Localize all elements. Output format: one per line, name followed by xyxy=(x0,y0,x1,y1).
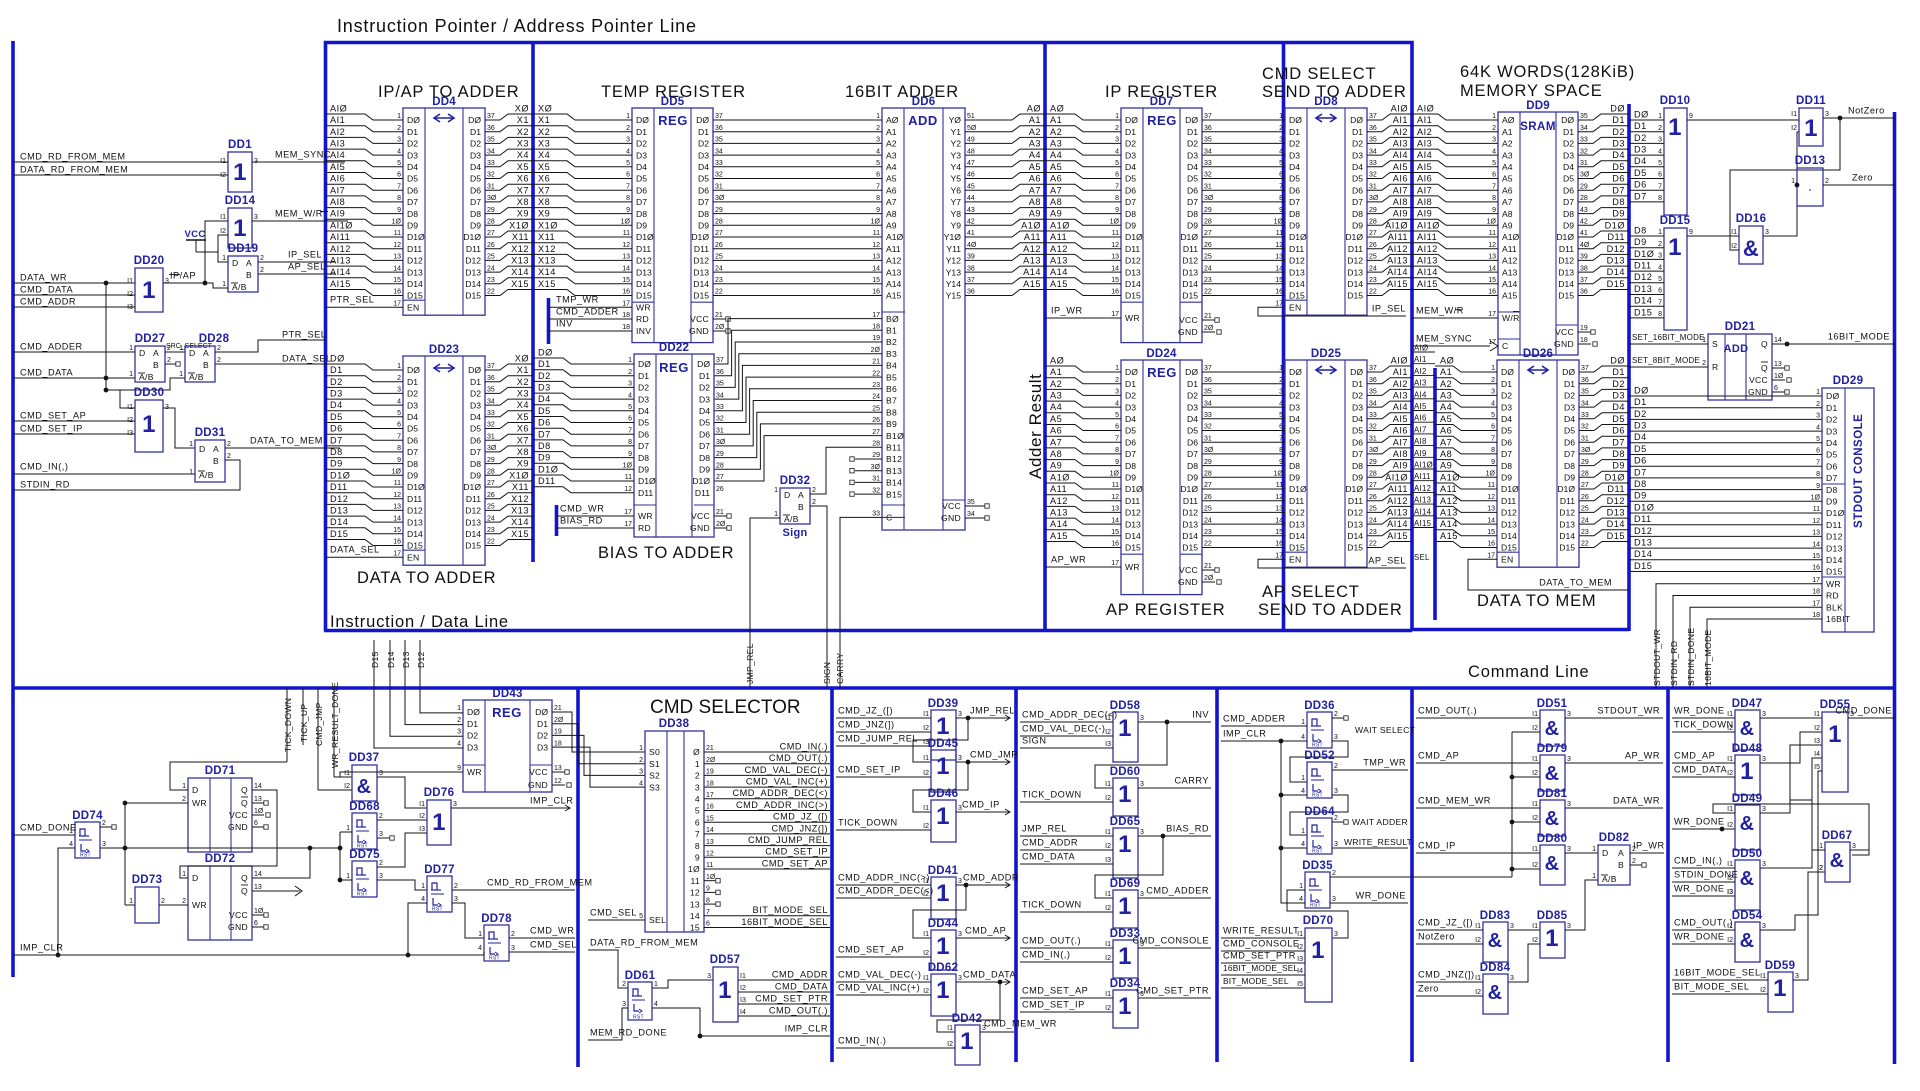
svg-text:8: 8 xyxy=(695,841,700,851)
svg-text:D6: D6 xyxy=(1289,437,1300,447)
svg-text:WR_DONE: WR_DONE xyxy=(1356,890,1406,900)
svg-text:24: 24 xyxy=(715,265,723,272)
svg-text:D14: D14 xyxy=(1347,531,1363,541)
svg-text:AI9: AI9 xyxy=(330,209,345,219)
svg-text:I2: I2 xyxy=(344,783,350,790)
and-gate DD80 xyxy=(1540,845,1565,885)
wire: AP-to-mem feeder bus xyxy=(1433,368,1437,620)
svg-text:WAIT ADDER: WAIT ADDER xyxy=(1352,817,1408,827)
svg-text:A15: A15 xyxy=(1050,279,1068,289)
svg-text:2: 2 xyxy=(1658,125,1662,132)
svg-text:A1Ø: A1Ø xyxy=(1021,220,1041,230)
svg-text:14: 14 xyxy=(690,911,700,921)
svg-text:2Ø: 2Ø xyxy=(1204,575,1214,582)
wire DD26 D8 to memory bus xyxy=(1579,460,1629,466)
svg-text:2: 2 xyxy=(379,813,383,820)
wire DD6 Y1 to adder-result bus A1 xyxy=(965,126,1045,132)
svg-text:VCC: VCC xyxy=(529,767,548,777)
wire D3 into DD10 xyxy=(1629,154,1664,156)
svg-text:11: 11 xyxy=(1112,482,1119,489)
wire AI6 into DD9 xyxy=(1412,184,1498,190)
svg-text:DD35: DD35 xyxy=(1302,860,1333,872)
svg-text:DD44: DD44 xyxy=(928,918,959,930)
svg-text:I2: I2 xyxy=(1817,865,1823,872)
svg-text:D6: D6 xyxy=(470,185,481,195)
svg-text:AI8: AI8 xyxy=(1393,197,1408,207)
svg-text:CMD_SET_AP: CMD_SET_AP xyxy=(1022,985,1088,995)
svg-text:AI2: AI2 xyxy=(1393,127,1408,137)
wire WR_RESULT_DONE into DD37 xyxy=(334,776,352,778)
svg-text:DØ: DØ xyxy=(1125,367,1138,377)
svg-text:EN: EN xyxy=(1501,554,1514,564)
svg-text:16: 16 xyxy=(1111,289,1119,296)
svg-text:PTR_SEL: PTR_SEL xyxy=(282,329,326,339)
svg-text:5: 5 xyxy=(1115,160,1119,167)
svg-text:DATA_RD_FROM_MEM: DATA_RD_FROM_MEM xyxy=(590,937,698,947)
svg-text:VCC: VCC xyxy=(1179,565,1198,575)
svg-text:DØ: DØ xyxy=(467,707,480,717)
svg-text:B8: B8 xyxy=(886,407,897,417)
svg-text:D6: D6 xyxy=(1289,185,1300,195)
svg-text:DD13: DD13 xyxy=(1795,155,1826,167)
wire TMP_WR to DD5 xyxy=(548,306,632,308)
svg-text:A6: A6 xyxy=(1502,185,1513,195)
wire AI15 into DD9 xyxy=(1412,290,1498,296)
svg-text:1: 1 xyxy=(1311,937,1325,964)
svg-text:D11: D11 xyxy=(1183,244,1198,254)
svg-text:I1: I1 xyxy=(923,711,929,718)
svg-text:1: 1 xyxy=(1658,113,1662,120)
svg-text:1: 1 xyxy=(233,215,247,242)
wire DD67 out loop to DD49 xyxy=(1850,850,1869,855)
svg-text:D7: D7 xyxy=(538,429,551,439)
svg-text:X11: X11 xyxy=(538,232,555,242)
svg-text:3: 3 xyxy=(1510,923,1514,930)
wire DD70 out to DD35 pin1 xyxy=(1287,890,1348,938)
svg-text:D6: D6 xyxy=(636,185,647,195)
wire AI7 into DD9 xyxy=(1412,196,1498,202)
wire CMD_JNZ to DD84 xyxy=(1416,981,1483,983)
svg-text:12: 12 xyxy=(706,851,714,858)
svg-text:12: 12 xyxy=(554,778,562,785)
svg-text:I2: I2 xyxy=(923,950,929,957)
svg-text:X9: X9 xyxy=(517,459,529,469)
svg-text:D4: D4 xyxy=(1563,162,1574,172)
svg-text:6: 6 xyxy=(1658,288,1662,295)
svg-text:14: 14 xyxy=(254,783,262,790)
svg-text:D9: D9 xyxy=(1564,473,1575,483)
svg-text:I2: I2 xyxy=(1105,843,1111,850)
IC DD15 zero-detect high byte xyxy=(1664,228,1687,330)
svg-text:I3: I3 xyxy=(1727,889,1733,896)
wire CMD_OUT from DD57 xyxy=(738,1015,830,1017)
wire DD24 to DD25 bit 4 xyxy=(1202,418,1285,420)
svg-text:I2: I2 xyxy=(1727,822,1733,829)
svg-text:27: 27 xyxy=(1204,230,1212,237)
svg-text:I1: I1 xyxy=(1532,801,1538,808)
svg-text:D14: D14 xyxy=(1125,531,1141,541)
svg-text:3: 3 xyxy=(1492,137,1496,144)
wire D10 into DD23 xyxy=(325,481,403,487)
svg-text:2Ø: 2Ø xyxy=(554,717,564,724)
svg-text:TMP_WR: TMP_WR xyxy=(556,294,599,304)
svg-text:22: 22 xyxy=(1581,541,1589,548)
svg-text:26: 26 xyxy=(487,492,495,499)
svg-text:STDIN_DONE: STDIN_DONE xyxy=(1686,628,1696,686)
svg-text:CMD_IP: CMD_IP xyxy=(1418,840,1456,850)
svg-text:IMP_CLR: IMP_CLR xyxy=(530,795,573,805)
wire X8 into DD5 xyxy=(533,208,632,214)
svg-text:VCC: VCC xyxy=(1555,327,1574,337)
svg-text:A1Ø: A1Ø xyxy=(1502,232,1520,242)
wire JMP_REL to DD65 xyxy=(1020,835,1113,837)
svg-text:I1: I1 xyxy=(1105,891,1111,898)
svg-text:AI1: AI1 xyxy=(330,115,345,125)
svg-text:D12: D12 xyxy=(1125,256,1141,266)
svg-text:D14: D14 xyxy=(1559,531,1575,541)
svg-text:DD64: DD64 xyxy=(1304,806,1335,818)
wire CMD_JZ to DD83 xyxy=(1416,929,1483,931)
wire MEM_W/R from DD14 xyxy=(252,220,348,222)
svg-text:1: 1 xyxy=(179,345,183,352)
svg-text:AI14: AI14 xyxy=(1417,267,1438,277)
svg-text:A9: A9 xyxy=(1440,461,1452,471)
svg-text:D11: D11 xyxy=(1289,496,1304,506)
wire X14 out of DD23 xyxy=(485,528,533,534)
svg-text:3: 3 xyxy=(1491,389,1495,396)
svg-text:I2: I2 xyxy=(1105,905,1111,912)
wire CMD_ADDR_DEC(<) from DD38 xyxy=(704,798,830,800)
svg-text:4: 4 xyxy=(1301,841,1305,848)
svg-text:5: 5 xyxy=(1816,436,1820,443)
svg-text:D2: D2 xyxy=(1563,139,1574,149)
svg-text:DD69: DD69 xyxy=(1110,878,1141,890)
wire X10 out of DD23 xyxy=(485,481,533,487)
svg-text:27: 27 xyxy=(1369,482,1377,489)
svg-text:D4: D4 xyxy=(1187,162,1198,172)
wire AI5 into DD4 xyxy=(325,173,403,179)
svg-text:A1: A1 xyxy=(1440,367,1452,377)
svg-text:9: 9 xyxy=(695,853,700,863)
no-connect DD82 B out xyxy=(1630,864,1642,866)
svg-text:35: 35 xyxy=(1581,389,1589,396)
svg-text:AI12: AI12 xyxy=(330,244,351,254)
svg-text:2: 2 xyxy=(876,125,880,132)
svg-text:33: 33 xyxy=(716,404,724,411)
svg-text:Y14: Y14 xyxy=(946,279,962,289)
wire DD24 to DD25 bit 10 xyxy=(1202,488,1285,490)
svg-text:3: 3 xyxy=(1567,756,1571,763)
svg-text:D11: D11 xyxy=(1348,244,1363,254)
svg-text:17: 17 xyxy=(624,509,632,516)
svg-text:D13: D13 xyxy=(330,506,348,516)
svg-text:D4: D4 xyxy=(1612,402,1625,412)
svg-text:34: 34 xyxy=(1580,125,1588,132)
svg-text:AØ: AØ xyxy=(1050,103,1064,113)
svg-text:1: 1 xyxy=(142,277,156,304)
wire 16BIT_MODE_SEL to DD59 xyxy=(1672,979,1768,981)
svg-text:3Ø: 3Ø xyxy=(716,439,726,446)
svg-text:32: 32 xyxy=(1369,424,1377,431)
wire DD75 out to DD76 I3 xyxy=(377,833,427,867)
svg-text:I2: I2 xyxy=(923,770,929,777)
svg-text:37: 37 xyxy=(715,113,723,120)
svg-text:DD24: DD24 xyxy=(1146,348,1177,360)
svg-text:7: 7 xyxy=(626,183,630,190)
svg-text:R: R xyxy=(1712,362,1719,372)
wire D0 into DD22 xyxy=(533,358,634,364)
svg-text:D7: D7 xyxy=(1563,197,1574,207)
svg-text:NotZero: NotZero xyxy=(1418,931,1455,941)
svg-text:DD16: DD16 xyxy=(1736,213,1767,225)
svg-text:44: 44 xyxy=(967,195,975,202)
svg-text:RD: RD xyxy=(636,314,649,324)
wire D7 into DD23 xyxy=(325,446,403,452)
IC DD73 delay xyxy=(135,887,159,923)
wire CMD_ADDR_INC to DD41 xyxy=(836,884,931,886)
wire DD26 D12 to memory bus xyxy=(1579,506,1629,512)
svg-text:D6: D6 xyxy=(1187,437,1198,447)
wire DD5 D6 to DD6 A6 xyxy=(713,189,882,191)
svg-text:26: 26 xyxy=(1204,494,1212,501)
svg-text:D11: D11 xyxy=(695,488,710,498)
svg-text:I5: I5 xyxy=(1297,981,1303,988)
svg-text:1: 1 xyxy=(1118,893,1132,920)
wire DD61 pin4 to IMP_CLR wire xyxy=(652,1008,700,1036)
wire: mini bus for DD5 control nets xyxy=(547,298,551,344)
svg-text:2: 2 xyxy=(628,369,632,376)
svg-text:A: A xyxy=(1618,848,1624,858)
svg-text:D11: D11 xyxy=(330,482,348,492)
svg-text:D12: D12 xyxy=(1182,256,1198,266)
wire AI1 out of DD8 xyxy=(1367,126,1412,132)
svg-text:REG: REG xyxy=(659,360,689,375)
svg-text:CMD_SET_AP: CMD_SET_AP xyxy=(20,410,86,420)
svg-text:A6: A6 xyxy=(1050,426,1062,436)
svg-text:AI1Ø: AI1Ø xyxy=(1385,220,1408,230)
svg-text:7: 7 xyxy=(1658,183,1662,190)
svg-text:12: 12 xyxy=(622,242,630,249)
svg-text:CMD_SET_IP: CMD_SET_IP xyxy=(838,764,901,774)
wire CMD_VAL_DEC to DD58 xyxy=(1020,735,1113,737)
svg-text:24: 24 xyxy=(1369,265,1377,272)
wire DD48 out to DD55 I2 xyxy=(1760,732,1822,763)
svg-text:47: 47 xyxy=(967,160,975,167)
svg-text:2: 2 xyxy=(1334,763,1338,770)
svg-text:DD49: DD49 xyxy=(1732,793,1763,805)
svg-text:1: 1 xyxy=(1773,975,1787,1002)
svg-text:VCC: VCC xyxy=(691,511,710,521)
mux DD31 xyxy=(195,440,225,482)
svg-text:1: 1 xyxy=(1791,178,1795,185)
svg-text:14: 14 xyxy=(1774,337,1782,344)
svg-text:23: 23 xyxy=(1204,277,1212,284)
svg-text:13: 13 xyxy=(254,796,262,803)
svg-text:11: 11 xyxy=(1489,230,1496,237)
wire A3 into DD7 xyxy=(1045,149,1121,155)
svg-text:D12: D12 xyxy=(1182,508,1198,518)
svg-text:3: 3 xyxy=(1140,829,1144,836)
svg-text:4: 4 xyxy=(69,841,73,848)
svg-text:2: 2 xyxy=(695,771,700,781)
svg-text:D13: D13 xyxy=(693,267,709,277)
svg-text:CMD_ADDER: CMD_ADDER xyxy=(556,306,619,316)
svg-text:D6: D6 xyxy=(1125,437,1136,447)
svg-text:DD42: DD42 xyxy=(952,1013,983,1025)
wire X7 out of DD4 xyxy=(485,196,533,202)
svg-text:D6: D6 xyxy=(1634,456,1647,466)
svg-text:I2: I2 xyxy=(1475,989,1481,996)
svg-text:&: & xyxy=(1743,236,1759,261)
svg-text:D1Ø: D1Ø xyxy=(407,482,425,492)
svg-text:D7: D7 xyxy=(407,197,418,207)
svg-text:D8: D8 xyxy=(699,453,710,463)
svg-text:D14: D14 xyxy=(386,651,396,668)
wire CMD_VAL_INC(+) from DD38 xyxy=(704,786,830,788)
svg-text:3: 3 xyxy=(1567,711,1571,718)
svg-text:DD7: DD7 xyxy=(1150,96,1174,108)
svg-text:13: 13 xyxy=(706,839,714,846)
svg-text:31: 31 xyxy=(487,183,495,190)
svg-text:1: 1 xyxy=(222,281,226,288)
svg-text:D1Ø: D1Ø xyxy=(1345,232,1363,242)
svg-text:6: 6 xyxy=(628,416,632,423)
wire DD52 out to DD64 xyxy=(1290,795,1348,835)
wire DD24 to DD25 bit 13 xyxy=(1202,523,1285,525)
svg-text:CMD_VAL_DEC(-): CMD_VAL_DEC(-) xyxy=(1022,723,1105,733)
svg-text:CMD_DATA: CMD_DATA xyxy=(1022,851,1076,861)
svg-text:DD9: DD9 xyxy=(1526,100,1550,112)
wire D8 into DD22 xyxy=(533,452,634,458)
svg-text:AIØ: AIØ xyxy=(1417,103,1434,113)
svg-text:1: 1 xyxy=(346,825,350,832)
svg-text:4: 4 xyxy=(1279,400,1283,407)
buffer DD62 xyxy=(931,974,956,1016)
wire DD9 D0 to memory bus xyxy=(1578,114,1629,120)
svg-text:CMD_OUT(.): CMD_OUT(.) xyxy=(1674,917,1733,927)
svg-text:14: 14 xyxy=(706,827,714,834)
svg-text:RST: RST xyxy=(1312,793,1323,799)
svg-text:A14: A14 xyxy=(1502,279,1518,289)
svg-text:B9: B9 xyxy=(886,419,897,429)
svg-text:CMD_SET_AP: CMD_SET_AP xyxy=(762,858,828,868)
buffer DD33 xyxy=(1113,940,1138,978)
svg-text:43: 43 xyxy=(967,207,975,214)
svg-text:TICK_DOWN: TICK_DOWN xyxy=(1674,719,1734,729)
svg-text:D11: D11 xyxy=(1501,496,1516,506)
svg-text:36: 36 xyxy=(715,125,723,132)
wire WR_DONE to DD54 xyxy=(1672,943,1735,945)
svg-text:D5: D5 xyxy=(1352,174,1363,184)
svg-text:DD39: DD39 xyxy=(928,698,959,710)
svg-text:28: 28 xyxy=(1581,471,1589,478)
IC DD9 SRAM 64K words xyxy=(1498,112,1578,355)
wire D6 into DD22 xyxy=(533,428,634,434)
svg-text:35: 35 xyxy=(715,137,723,144)
svg-text:DD25: DD25 xyxy=(1311,348,1342,360)
svg-text:37: 37 xyxy=(967,277,975,284)
svg-text:D8: D8 xyxy=(1289,209,1300,219)
svg-text:2: 2 xyxy=(622,981,626,988)
wire X4 into DD5 xyxy=(533,161,632,167)
wire AI7 into DD4 xyxy=(325,196,403,202)
svg-text:17: 17 xyxy=(1275,300,1283,307)
svg-text:9: 9 xyxy=(628,451,632,458)
svg-text:19: 19 xyxy=(1580,325,1588,332)
svg-text:MEMORY SPACE: MEMORY SPACE xyxy=(1460,82,1603,100)
svg-text:D2: D2 xyxy=(1125,391,1136,401)
wire AI11 out of DD25 xyxy=(1367,495,1412,501)
wire AI3 into DD4 xyxy=(325,149,403,155)
svg-text:7: 7 xyxy=(1491,435,1495,442)
mux DD32 sign extender xyxy=(780,488,810,524)
buffer DD55 command done xyxy=(1822,712,1848,792)
svg-text:34: 34 xyxy=(1369,400,1377,407)
wire DD26 D13 to memory bus xyxy=(1579,518,1629,524)
wire: bottom box divider x=1217 xyxy=(1215,688,1219,1062)
svg-text:27: 27 xyxy=(487,230,495,237)
svg-text:D15: D15 xyxy=(636,291,652,301)
svg-text:WR: WR xyxy=(192,798,207,808)
wire SET_8BIT_MODE to DD21 xyxy=(1629,366,1708,368)
svg-text:D5: D5 xyxy=(1634,168,1647,178)
svg-text:Y15: Y15 xyxy=(946,291,962,301)
svg-text:11: 11 xyxy=(1276,482,1283,489)
svg-text:32: 32 xyxy=(1204,172,1212,179)
wire A2 into DD26 xyxy=(1435,389,1497,395)
wire DD54 out to DD55 I5 xyxy=(1760,771,1822,930)
svg-text:D7: D7 xyxy=(636,197,647,207)
svg-text:D1Ø: D1Ø xyxy=(538,464,558,474)
svg-text:8: 8 xyxy=(1115,195,1119,202)
svg-text:6: 6 xyxy=(626,172,630,179)
wire DD16 out up to DD11/DD13 xyxy=(1763,132,1799,236)
svg-text:RST: RST xyxy=(489,956,500,962)
wire X5 out of DD23 xyxy=(485,423,533,429)
svg-text:13: 13 xyxy=(393,254,401,261)
svg-text:D: D xyxy=(139,348,146,358)
svg-text:DD46: DD46 xyxy=(928,788,959,800)
svg-text:2: 2 xyxy=(812,487,816,494)
svg-text:D9: D9 xyxy=(698,221,709,231)
svg-text:2: 2 xyxy=(454,883,458,890)
wire X12 out of DD4 xyxy=(485,254,533,260)
svg-text:D13: D13 xyxy=(1826,543,1843,553)
svg-text:9: 9 xyxy=(1491,459,1495,466)
svg-text:1: 1 xyxy=(695,759,700,769)
svg-text:I1: I1 xyxy=(1532,846,1538,853)
svg-text:13: 13 xyxy=(1488,254,1496,261)
wire DD36 out to DD52 xyxy=(1290,741,1348,782)
svg-text:6: 6 xyxy=(397,422,401,429)
svg-text:1Ø: 1Ø xyxy=(254,908,264,915)
svg-text:35: 35 xyxy=(487,387,495,394)
svg-text:64K WORDS(128KiB): 64K WORDS(128KiB) xyxy=(1460,63,1635,81)
wire INV to DD5 xyxy=(548,330,632,332)
svg-text:D1Ø: D1Ø xyxy=(1289,232,1307,242)
svg-text:D9: D9 xyxy=(1352,221,1363,231)
svg-text:CMD_VAL_INC(+): CMD_VAL_INC(+) xyxy=(746,777,828,787)
svg-text:14: 14 xyxy=(393,265,401,272)
wire CMD_ADDR to DD65 xyxy=(1020,849,1113,851)
wire DD5 D12 to DD6 A12 xyxy=(713,259,882,261)
svg-text:D14: D14 xyxy=(1289,279,1305,289)
wire DD9 D13 to memory bus xyxy=(1578,266,1629,272)
svg-text:D12: D12 xyxy=(693,256,709,266)
svg-text:&: & xyxy=(1545,808,1560,830)
svg-text:D1Ø: D1Ø xyxy=(1125,484,1143,494)
svg-text:DATA_TO_MEM: DATA_TO_MEM xyxy=(250,435,323,445)
